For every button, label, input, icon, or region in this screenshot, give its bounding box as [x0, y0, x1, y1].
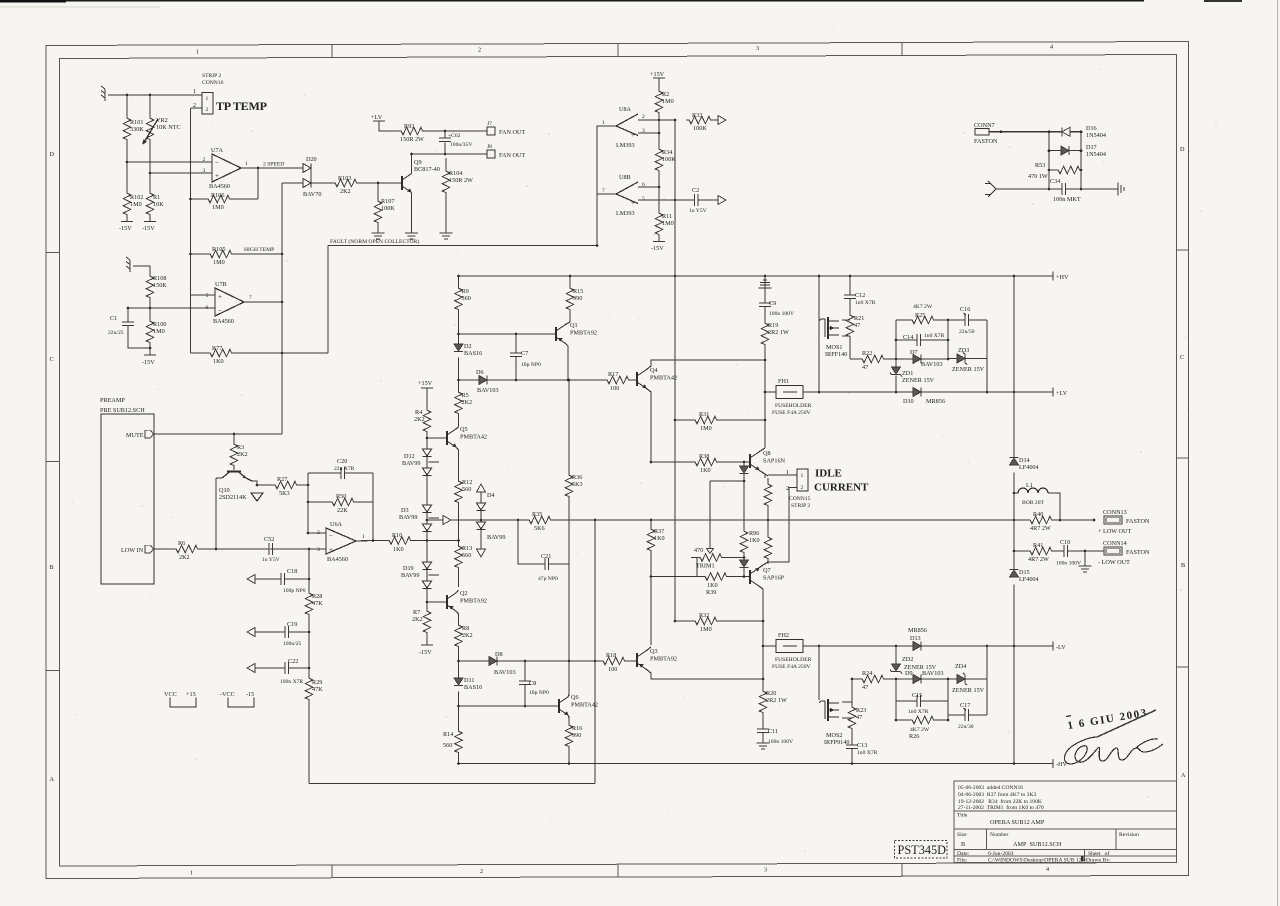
resistor R106: [205, 192, 231, 211]
resistor R11: [655, 210, 674, 236]
svg-text:LM393: LM393: [616, 210, 635, 217]
diode D20 (BAV70 pair upper): [303, 156, 317, 173]
resistor R17: [604, 371, 630, 392]
svg-text:2: 2: [642, 114, 645, 120]
svg-text:J7: J7: [487, 121, 492, 127]
svg-text:FUSEHOLDER: FUSEHOLDER: [775, 403, 812, 409]
svg-text:22u/25: 22u/25: [108, 330, 124, 336]
svg-text:D14: D14: [1019, 457, 1030, 464]
earth right of C34: [1118, 183, 1124, 196]
svg-text:BAS16: BAS16: [464, 350, 482, 357]
svg-text:R41: R41: [1033, 542, 1043, 549]
svg-text:R25: R25: [915, 312, 925, 319]
svg-text:BAV99: BAV99: [399, 514, 417, 521]
svg-text:R22: R22: [862, 350, 872, 357]
svg-text:FASTON: FASTON: [1126, 518, 1150, 525]
svg-text:BA4560: BA4560: [213, 318, 234, 325]
svg-text:7: 7: [602, 188, 605, 194]
svg-text:Q9: Q9: [414, 159, 422, 166]
ground below R107: [372, 233, 385, 239]
resistor R105: [207, 246, 233, 266]
svg-text:C18: C18: [287, 568, 297, 575]
transistor Q4 PMBTA42: [637, 360, 765, 462]
svg-text:2: 2: [317, 530, 320, 536]
svg-text:R93: R93: [404, 123, 414, 130]
power -15V below R102: [119, 222, 133, 233]
svg-text:SAP16N: SAP16N: [763, 458, 786, 465]
svg-text:2: 2: [478, 47, 481, 54]
svg-text:-15V: -15V: [419, 649, 432, 656]
comparator U8A: [602, 106, 645, 149]
svg-text:100: 100: [610, 385, 619, 392]
svg-text:BAV103: BAV103: [494, 669, 516, 676]
svg-text:C13: C13: [857, 742, 867, 749]
svg-text:10K NTC: 10K NTC: [156, 124, 181, 131]
stamp strike line: [1097, 710, 1156, 737]
svg-text:-15V: -15V: [119, 225, 132, 232]
svg-text:R9: R9: [462, 288, 469, 295]
svg-text:R29: R29: [312, 679, 322, 686]
svg-text:−: −: [215, 159, 219, 167]
svg-text:1: 1: [196, 49, 199, 56]
resistor R22: [859, 350, 885, 371]
wire feedback bottom: [309, 520, 595, 784]
svg-text:ZENER 15V: ZENER 15V: [902, 377, 935, 384]
svg-text:CONN13: CONN13: [1103, 509, 1127, 516]
resistor R8: [455, 622, 473, 648]
capacitor C9: [759, 300, 794, 317]
svg-text:AMP SUB12.SCH: AMP SUB12.SCH: [1013, 841, 1062, 848]
wire -HV rail: [459, 759, 1054, 768]
capacitor C8: [519, 661, 549, 706]
svg-text:1: 1: [801, 473, 804, 479]
svg-text:+HV: +HV: [1056, 274, 1069, 281]
svg-text:-LV: -LV: [1056, 644, 1066, 651]
svg-text:R3: R3: [237, 444, 244, 451]
svg-text:J8: J8: [487, 144, 492, 150]
svg-text:PMBTA92: PMBTA92: [460, 598, 487, 605]
svg-text:- LOW OUT: - LOW OUT: [1098, 559, 1130, 566]
svg-text:A: A: [1181, 772, 1186, 779]
svg-text:6: 6: [206, 305, 209, 311]
svg-text:Date:: Date:: [957, 851, 970, 857]
svg-text:100K: 100K: [662, 156, 676, 163]
svg-text:150R 2W: 150R 2W: [449, 177, 473, 184]
svg-text:C22: C22: [288, 658, 298, 665]
capacitor C14: [903, 333, 945, 346]
capacitor C18: [281, 568, 306, 594]
capacitor C2: [675, 187, 718, 214]
resistor R53: [1028, 162, 1081, 180]
svg-text:C11: C11: [768, 728, 778, 735]
svg-text:150K: 150K: [153, 282, 167, 289]
resistor R19: [761, 320, 789, 346]
diode D14 LF4004: [1010, 457, 1039, 471]
svg-text:Q6: Q6: [571, 694, 579, 701]
svg-text:1K0: 1K0: [654, 535, 665, 542]
svg-text:R102: R102: [130, 194, 143, 201]
power +15V above R4: [418, 380, 433, 407]
svg-text:10K: 10K: [153, 201, 164, 208]
svg-text:STRIP 2: STRIP 2: [791, 503, 810, 509]
transistor Q10 2SD2114K (sideways): [216, 467, 252, 501]
svg-text:470 1W: 470 1W: [1028, 173, 1048, 180]
power -15V below R11: [651, 242, 665, 253]
connector CONN14 FASTON: [1098, 540, 1150, 566]
svg-text:R106: R106: [211, 192, 224, 199]
svg-text:R104: R104: [449, 170, 462, 177]
capacitor C20: [334, 458, 355, 479]
wire Q7 collector column to R20: [762, 639, 764, 743]
resistor R96: [740, 528, 759, 554]
svg-text:100n 100V: 100n 100V: [769, 311, 794, 317]
transistor Q9 BC817-40: [402, 154, 440, 233]
svg-text:47: 47: [862, 364, 868, 371]
power symbol -VCC -15: [220, 691, 254, 707]
svg-text:BA4560: BA4560: [327, 556, 348, 563]
wire U7A inputs/output: [127, 162, 303, 199]
svg-text:R28: R28: [312, 593, 322, 600]
svg-text:1M0: 1M0: [662, 220, 674, 227]
arrow out C2: [718, 196, 726, 205]
svg-text:D19: D19: [403, 565, 414, 572]
svg-text:R108: R108: [153, 275, 166, 282]
resistor R12: [455, 478, 473, 504]
svg-text:R27: R27: [277, 476, 287, 483]
svg-text:R6: R6: [178, 540, 185, 547]
wire emitter resistors to rail: [765, 474, 797, 564]
svg-text:2K2: 2K2: [179, 554, 190, 561]
resistor R107: [374, 183, 395, 233]
wire R32 line: [675, 620, 763, 622]
svg-text:1M0: 1M0: [700, 626, 712, 633]
wire Q2 base: [427, 601, 447, 603]
svg-text:D4: D4: [487, 492, 495, 499]
svg-text:FASTON: FASTON: [1126, 549, 1150, 556]
resistor R31: [692, 411, 718, 432]
svg-text:1K0: 1K0: [749, 537, 760, 544]
svg-text:R12: R12: [462, 479, 472, 486]
svg-text:CURRENT: CURRENT: [814, 482, 869, 494]
resistor R26: [909, 716, 935, 740]
svg-text:D3: D3: [401, 507, 409, 514]
capacitor C15: [908, 692, 929, 715]
svg-text:4K7 2W: 4K7 2W: [913, 304, 933, 310]
wire Q6 base line: [459, 705, 560, 707]
svg-text:1n0 X7R: 1n0 X7R: [924, 333, 945, 339]
resistor R38: [692, 453, 718, 474]
svg-text:1n0 X7R: 1n0 X7R: [855, 300, 876, 306]
svg-text:BAV103: BAV103: [921, 361, 943, 368]
svg-text:D12: D12: [404, 453, 415, 460]
svg-text:+LV: +LV: [1056, 390, 1068, 397]
svg-text:Q2: Q2: [460, 590, 468, 597]
trimmer TRIM1 470: [691, 547, 744, 577]
svg-text:470: 470: [694, 547, 703, 554]
svg-text:2 SPEED: 2 SPEED: [263, 162, 284, 168]
diode D11 BAS16: [454, 677, 482, 691]
svg-text:+15V: +15V: [650, 71, 665, 78]
ground below C10: [1079, 566, 1092, 572]
svg-text:1K0: 1K0: [707, 582, 718, 589]
resistor R41: [1027, 542, 1053, 563]
wiper arrow TRIM1: [707, 549, 714, 554]
svg-text:C10: C10: [1060, 539, 1070, 546]
power symbol VCC +15: [164, 691, 196, 707]
svg-text:4: 4: [1050, 44, 1053, 51]
svg-text:FUSE F4A 250V: FUSE F4A 250V: [772, 664, 811, 670]
resistor R4: [414, 407, 431, 433]
diode D10 MR856: [903, 388, 945, 406]
resistor R104: [442, 158, 473, 233]
diode D6 BAV103: [476, 369, 499, 394]
connector J8 FAN OUT: [487, 144, 525, 159]
svg-text:2K2: 2K2: [462, 399, 473, 406]
svg-text:1K0: 1K0: [213, 358, 224, 365]
svg-text:B: B: [961, 841, 965, 848]
svg-text:1N5404: 1N5404: [1086, 151, 1106, 158]
svg-text:ZD1: ZD1: [902, 370, 913, 377]
svg-text:R18: R18: [606, 652, 616, 659]
wire U8 outputs / fault vertical: [597, 126, 616, 246]
svg-text:560: 560: [462, 552, 471, 559]
svg-text:+: +: [631, 199, 635, 207]
op-amp U7B: [206, 281, 253, 325]
svg-text:R101: R101: [130, 119, 143, 126]
svg-text:3: 3: [317, 547, 320, 553]
wire Q10 collector/emitter: [216, 478, 272, 549]
svg-text:R7: R7: [413, 609, 420, 616]
svg-text:+C62: +C62: [448, 133, 461, 139]
svg-text:3: 3: [756, 45, 759, 52]
connector CONN16 STRIP 2: [193, 73, 224, 114]
svg-text:R16: R16: [572, 725, 582, 732]
svg-text:Q5: Q5: [460, 426, 468, 433]
comparator U8B: [602, 174, 645, 217]
wire Q5 base: [427, 433, 447, 438]
resistor R77: [207, 345, 233, 365]
svg-text:R39: R39: [706, 589, 716, 596]
resistor R36: [565, 380, 582, 661]
svg-text:R107: R107: [381, 198, 394, 205]
IDLE CURRENT title text: [814, 468, 869, 494]
arrow out R33: [718, 116, 726, 125]
svg-text:R8: R8: [462, 625, 469, 632]
emitter resistor Q8: [764, 481, 772, 507]
resistor R35: [526, 511, 552, 532]
wire R93 to J7: [412, 131, 487, 154]
svg-text:2: 2: [206, 107, 209, 113]
svg-text:LM393: LM393: [616, 142, 635, 149]
svg-text:3: 3: [764, 867, 767, 874]
svg-text:+ LOW OUT: + LOW OUT: [1098, 528, 1131, 535]
svg-text:5: 5: [206, 293, 209, 299]
resistor R27: [272, 476, 298, 497]
svg-text:IRFF140: IRFF140: [825, 351, 847, 358]
svg-text:R24: R24: [862, 670, 872, 677]
svg-text:C15: C15: [912, 692, 922, 699]
wire +HV rail: [459, 272, 1054, 281]
svg-text:R4: R4: [415, 409, 422, 416]
svg-text:Q3: Q3: [650, 648, 658, 655]
svg-text:U6A: U6A: [330, 521, 343, 528]
svg-text:D7: D7: [910, 349, 918, 356]
svg-text:1n0 X7R: 1n0 X7R: [908, 709, 929, 715]
svg-text:990: 990: [573, 295, 582, 302]
svg-text:SAP16P: SAP16P: [763, 575, 785, 582]
diode D7 BAV103: [910, 349, 943, 368]
svg-text:10p NP0: 10p NP0: [529, 690, 549, 696]
svg-text:R103: R103: [338, 175, 351, 182]
svg-text:1: 1: [206, 96, 209, 102]
resistor R21: [846, 312, 864, 338]
resistor R29: [305, 675, 323, 701]
arrow mid rail: [443, 516, 451, 525]
resistor R18: [600, 652, 626, 673]
svg-text:22u/30: 22u/30: [958, 724, 974, 730]
svg-text:D17: D17: [1086, 144, 1097, 151]
svg-text:LF4004: LF4004: [1019, 576, 1039, 583]
svg-text:1: 1: [190, 870, 193, 877]
svg-text:L1: L1: [1026, 482, 1033, 489]
svg-text:-15V: -15V: [142, 225, 155, 232]
svg-text:TRIM1: TRIM1: [696, 563, 715, 570]
power +LV for fan: [371, 114, 398, 131]
svg-text:C14: C14: [903, 334, 913, 341]
svg-text:2K2: 2K2: [462, 632, 473, 639]
svg-text:7: 7: [249, 295, 252, 301]
svg-text:Q1: Q1: [570, 322, 578, 329]
resistor R3: [230, 441, 247, 467]
svg-text:R26: R26: [909, 733, 919, 740]
svg-text:CONN7: CONN7: [974, 122, 995, 129]
mosfet MOS1 IRFF140: [819, 317, 847, 358]
junction dots (all schematic nodes): [126, 94, 1096, 765]
svg-text:100n MKT: 100n MKT: [1053, 196, 1081, 203]
svg-text:1: 1: [362, 534, 365, 540]
svg-text:100: 100: [608, 666, 617, 673]
emitter resistor Q7: [764, 534, 772, 560]
PST345D stamp box: [895, 841, 948, 859]
svg-text:BAV99: BAV99: [402, 460, 420, 467]
resistor R50: [329, 493, 355, 514]
svg-text:-15V: -15V: [142, 359, 155, 366]
svg-text:MR856: MR856: [926, 398, 945, 405]
svg-text:BAV103: BAV103: [922, 670, 944, 677]
svg-text:C:\WINDOWS\Desktop\OPERA SUB 1: C:\WINDOWS\Desktop\OPERA SUB 12 4: [988, 858, 1086, 864]
diode BAV70 pair lower: [303, 168, 321, 198]
svg-text:27-11-2002 TRIM1 from 1K0 to: 27-11-2002 TRIM1 from 1K0 to 470: [958, 804, 1044, 811]
svg-text:2: 2: [480, 868, 483, 875]
svg-text:D16: D16: [1086, 125, 1097, 132]
svg-text:-15V: -15V: [651, 245, 664, 252]
svg-text:FH2: FH2: [778, 632, 789, 639]
transistor Q7 SAP16P: [750, 562, 785, 639]
svg-text:FUSE F4A 250V: FUSE F4A 250V: [772, 410, 811, 416]
svg-text:FAULT (NORM OPEN COLLECTOR): FAULT (NORM OPEN COLLECTOR): [330, 238, 419, 245]
title block title row: [957, 813, 1045, 827]
svg-text:2: 2: [801, 485, 804, 491]
capacitor C7: [510, 334, 541, 380]
capacitor C13: [846, 742, 878, 756]
svg-text:D2: D2: [464, 343, 472, 350]
svg-text:ZD2: ZD2: [902, 656, 913, 663]
title block date/file rows: [957, 850, 1111, 864]
diode D9 BAV103: [905, 670, 944, 684]
transistor Q3 PMBTA92: [637, 647, 763, 679]
svg-text:R13: R13: [462, 545, 472, 552]
ground below R104: [440, 233, 453, 239]
resistor R24: [859, 670, 885, 691]
svg-text:Title: Title: [957, 813, 968, 819]
svg-text:BAV103: BAV103: [477, 387, 499, 394]
power -15V below R100: [142, 355, 156, 366]
wire bias chain below U6A: [255, 549, 309, 784]
wire R39 line: [651, 568, 750, 577]
svg-text:VCC: VCC: [164, 691, 177, 698]
svg-text:D8: D8: [495, 651, 503, 658]
ground below C11: [757, 743, 770, 749]
svg-text:2K2: 2K2: [412, 616, 423, 623]
svg-text:C12: C12: [855, 292, 865, 299]
svg-text:10p NP0: 10p NP0: [521, 362, 541, 368]
capacitor C22: [280, 658, 303, 685]
transistor Q5 PMBTA42: [447, 426, 487, 465]
resistor R100: [146, 318, 166, 344]
capacitor C21: [518, 520, 569, 582]
transistor Q8 SAP16N: [750, 448, 786, 478]
wire R31 line: [675, 419, 765, 421]
svg-text:CONN14: CONN14: [1103, 540, 1127, 547]
diode Q7 bias lower: [740, 560, 749, 577]
svg-text:R31: R31: [699, 411, 709, 418]
svg-text:47K: 47K: [312, 686, 323, 693]
resistor R28: [305, 590, 323, 616]
svg-text:4: 4: [1046, 866, 1049, 873]
svg-text:R19: R19: [768, 322, 778, 329]
title block size/number/revision: [957, 832, 1139, 848]
svg-text:47: 47: [862, 684, 868, 691]
svg-text:Sheet of: Sheet of: [1088, 850, 1109, 857]
svg-text:C52: C52: [264, 536, 274, 543]
svg-text:2R2 1W: 2R2 1W: [766, 697, 787, 704]
dual diode D4 with arrows: [477, 484, 506, 557]
svg-text:PMBTA92: PMBTA92: [570, 330, 597, 337]
svg-text:C20: C20: [337, 458, 347, 465]
svg-text:D6: D6: [476, 369, 484, 376]
capacitor C12: [844, 292, 876, 306]
svg-text:OPERA SUB12 AMP: OPERA SUB12 AMP: [990, 819, 1045, 826]
svg-text:1u Y5V: 1u Y5V: [262, 557, 280, 563]
svg-text:D15: D15: [1019, 569, 1030, 576]
svg-text:47K: 47K: [312, 600, 323, 607]
arrow C18: [247, 575, 255, 584]
zener ZD2: [890, 656, 937, 674]
resistor R101: [123, 115, 144, 141]
svg-text:2R2 1W: 2R2 1W: [768, 329, 789, 336]
wire CONN15 pin2: [768, 488, 797, 563]
transistor Q2 PMBTA92: [447, 590, 487, 622]
resistor R23: [848, 704, 866, 730]
svg-text:C: C: [1180, 354, 1184, 361]
svg-text:04-06-2003 R37 from 4K7 to 3K: 04-06-2003 R37 from 4K7 to 3K3: [958, 791, 1037, 798]
wire TP TEMP top net: [108, 95, 202, 353]
capacitor C1: [108, 315, 134, 336]
power +15V above R2: [650, 71, 665, 78]
svg-text:-15: -15: [246, 691, 254, 698]
wire feedback node U6A: [298, 473, 373, 541]
diode D16 1N5404: [1062, 125, 1106, 139]
